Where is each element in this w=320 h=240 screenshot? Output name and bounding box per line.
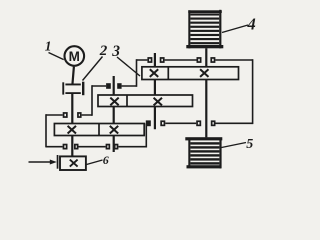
gear X row3 right — [110, 126, 118, 134]
clutch M-D1 on shaft III row D — [146, 120, 151, 126]
wire vertical right frame — [252, 59, 254, 124]
coupling C1 below motor — [62, 82, 64, 94]
input bar at box 6 — [57, 155, 59, 169]
wire row A — [137, 59, 253, 61]
drum 5 (bottom coil) — [185, 137, 222, 168]
label 4 leader — [222, 25, 248, 33]
svg-text:2: 2 — [99, 43, 108, 59]
shaft III — [154, 53, 156, 129]
label 3 leader — [117, 57, 140, 76]
wire row B — [92, 85, 137, 87]
gear X row1 left — [150, 69, 158, 77]
box 6 (output unit) — [60, 156, 86, 170]
clutch M-D2 on shaft IV row D — [197, 121, 200, 125]
clutch M-E2 on shaft II row E — [106, 145, 109, 149]
gear X row3 left — [68, 126, 76, 134]
clutch M-A1 on shaft III row A — [148, 58, 151, 62]
clutch M-C on shaft I row C — [64, 113, 67, 117]
clutch M-E1 on shaft I row E — [63, 145, 66, 149]
gearbox row 1 — [142, 67, 239, 80]
clutch M-B on shaft II row B — [106, 83, 111, 89]
svg-text:6: 6 — [103, 153, 109, 167]
svg-text:5: 5 — [246, 137, 253, 152]
svg-text:1: 1 — [45, 39, 52, 54]
gear X row2 left — [110, 98, 118, 106]
wire row D — [165, 122, 252, 124]
label 5 leader — [222, 143, 247, 148]
gearbox row 2 — [98, 95, 193, 107]
gear X row2 right — [154, 98, 162, 106]
wire vertical x145.6 — [145, 123, 147, 147]
shaft II — [113, 76, 115, 152]
drum 4 (top coil) — [186, 10, 223, 49]
wire vertical x92 — [91, 85, 93, 116]
wire row C — [46, 114, 92, 116]
motor M1 circle — [65, 46, 85, 66]
label 2 leader — [83, 57, 103, 81]
clutch M-A2 on shaft IV row A — [197, 58, 200, 62]
shaft I (motor shaft) — [72, 67, 74, 157]
shaft IV — [205, 48, 207, 137]
svg-text:3: 3 — [111, 43, 120, 60]
wire vertical left frame — [45, 114, 47, 147]
wire vertical x136.5 — [136, 59, 138, 87]
wire row E — [46, 146, 146, 148]
svg-text:M: M — [69, 49, 80, 64]
gear X row1 right — [200, 69, 208, 77]
input arrow — [29, 161, 51, 163]
label 6 leader — [87, 160, 103, 165]
gear X box6 — [70, 160, 78, 167]
svg-text:4: 4 — [247, 15, 256, 34]
gearbox row 3 — [54, 124, 144, 136]
label 1 leader — [49, 53, 64, 60]
